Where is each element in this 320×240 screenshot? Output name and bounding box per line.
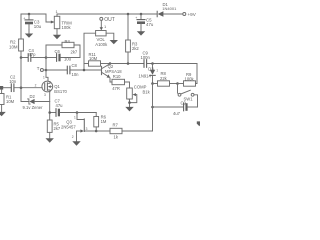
svg-text:10M: 10M: [89, 56, 98, 61]
resistor R5: [47, 120, 61, 139]
node C2 out: [20, 86, 23, 89]
node C7 / Q3 drain: [76, 111, 79, 114]
svg-text:1: 1: [74, 116, 76, 120]
resistor R9: [178, 64, 198, 87]
svg-text:10n: 10n: [72, 72, 80, 77]
svg-text:2N5457: 2N5457: [61, 124, 76, 129]
capacitor C8: [46, 63, 101, 77]
svg-text:2k2: 2k2: [132, 46, 139, 51]
resistor R11: [84, 52, 110, 66]
node gate column mid: [45, 69, 48, 72]
svg-text:3: 3: [44, 93, 46, 97]
svg-text:1: 1: [156, 69, 158, 73]
svg-text:1: 1: [43, 76, 45, 80]
node rail-C3: [28, 13, 31, 16]
diode D1 1N4001: [157, 2, 177, 17]
terminal +9V: [183, 12, 197, 17]
node D3 / C10: [151, 106, 154, 109]
svg-text:+: +: [135, 16, 137, 20]
node Q2 collector: [109, 62, 112, 65]
node R6 bottom: [95, 130, 98, 133]
svg-text:47R: 47R: [112, 86, 120, 91]
svg-text:100k: 100k: [62, 25, 72, 30]
svg-text:B1k: B1k: [143, 89, 151, 94]
svg-text:4u7: 4u7: [173, 111, 181, 116]
node rail-R3: [127, 13, 130, 16]
svg-text:10u: 10u: [64, 56, 72, 61]
ground R5: [46, 138, 54, 143]
wire C7 node to R6: [77, 112, 96, 114]
svg-text:C9: C9: [181, 101, 187, 106]
svg-text:2k7: 2k7: [54, 126, 61, 131]
svg-text:+9V: +9V: [188, 12, 197, 17]
node rail-C5: [140, 13, 143, 16]
wire VOL right to ground: [106, 33, 114, 40]
node D3 bottom / R8: [151, 82, 154, 85]
svg-text:R4: R4: [65, 39, 71, 44]
potentiometer COMP: [127, 85, 151, 108]
capacitor C4: [21, 48, 46, 62]
resistor R2: [9, 14, 23, 58]
ground fragment at right edge: [197, 121, 202, 126]
svg-text:10u: 10u: [34, 24, 42, 29]
resistor R3: [126, 14, 140, 64]
svg-text:1: 1: [104, 24, 107, 29]
capacitor C3: [23, 14, 41, 30]
node C8-VOL-R11: [83, 69, 86, 72]
capacitor C2: [0, 74, 42, 91]
svg-text:R7: R7: [113, 123, 119, 128]
svg-text:1N4001: 1N4001: [162, 6, 177, 11]
svg-text:C6: C6: [55, 49, 61, 54]
node R2-C4: [20, 56, 23, 59]
svg-text:2: 2: [72, 135, 74, 139]
resistor R6: [94, 113, 107, 132]
svg-text:D3: D3: [148, 67, 154, 72]
resistor R4: [46, 39, 80, 58]
svg-text:10n: 10n: [9, 79, 17, 84]
svg-text:D2: D2: [30, 94, 36, 99]
capacitor C9: [141, 51, 198, 68]
capacitor C5: [135, 14, 154, 28]
capacitor C7: [50, 99, 77, 117]
svg-text:2k7: 2k7: [71, 49, 78, 54]
wire Q1 drain jog: [46, 77, 48, 81]
wire collector node right: [110, 63, 143, 65]
svg-text:47u: 47u: [56, 103, 64, 108]
svg-text:100k: 100k: [185, 77, 195, 82]
svg-text:T: T: [37, 66, 40, 71]
zener D2: [21, 88, 50, 110]
svg-text:47p: 47p: [29, 52, 37, 57]
terminal T: [37, 66, 46, 72]
svg-text:1k: 1k: [114, 135, 119, 140]
ground R1: [0, 112, 6, 116]
svg-text:OUT: OUT: [104, 17, 115, 23]
resistor R7: [96, 123, 152, 140]
resistor R10: [112, 74, 130, 91]
diode D3: [139, 64, 159, 84]
svg-text:10M: 10M: [6, 99, 15, 104]
capacitor C10 4u7: [153, 101, 198, 116]
svg-text:1M: 1M: [101, 119, 107, 124]
node R3 bottom: [127, 62, 130, 65]
svg-text:100n: 100n: [141, 55, 151, 60]
wire VOL left down to R11: [84, 33, 96, 70]
wire top rail right segment: [57, 14, 157, 16]
svg-text:10M: 10M: [9, 44, 18, 49]
trimmer TR1 100k: [51, 9, 72, 30]
svg-text:MPSA18: MPSA18: [105, 69, 122, 74]
terminal OUT: [100, 17, 115, 23]
svg-text:3: 3: [86, 127, 88, 131]
ground C5: [137, 28, 145, 36]
svg-text:A100k: A100k: [95, 42, 108, 47]
wire D3 column down and bottom return: [152, 84, 154, 132]
wire R2 node down to C2 node: [20, 58, 22, 88]
svg-text:1: 1: [56, 9, 59, 14]
switch SW1: [178, 84, 198, 108]
resistor R8: [153, 71, 178, 86]
ground COMP: [125, 107, 133, 112]
svg-text:R10: R10: [113, 74, 121, 79]
wire top rail left segment: [21, 14, 54, 22]
transistor Q1 BS170: [42, 76, 68, 98]
wire gate column: [45, 58, 47, 78]
wire D1 anode to +9V: [164, 13, 183, 15]
wire Q1 source down: [49, 92, 51, 120]
svg-text:C8: C8: [72, 63, 78, 68]
svg-text:2: 2: [35, 83, 37, 87]
ground VOL: [110, 40, 118, 44]
node gate column top: [45, 56, 48, 59]
potentiometer VOL: [95, 20, 108, 46]
node C9 / D3: [151, 62, 154, 65]
ground Q3 gate: [72, 131, 80, 146]
transistor Q3 2N5457: [61, 113, 96, 139]
node R8 / R9 / SW1: [176, 82, 179, 85]
node Q1 source / C7: [48, 111, 51, 114]
ground C3: [25, 30, 33, 38]
capacitor C6: [46, 49, 80, 62]
resistor R1: [0, 90, 15, 113]
svg-text:22k: 22k: [160, 76, 168, 81]
node COMP bottom: [128, 101, 131, 104]
svg-text:BS170: BS170: [54, 89, 67, 94]
svg-text:47u: 47u: [146, 22, 154, 27]
svg-text:9.1v Zener: 9.1v Zener: [23, 105, 44, 110]
ground trimmer: [53, 29, 61, 40]
svg-text:+: +: [23, 16, 25, 20]
svg-text:1N914: 1N914: [139, 73, 152, 78]
transistor Q2 MPSA18: [102, 64, 123, 82]
